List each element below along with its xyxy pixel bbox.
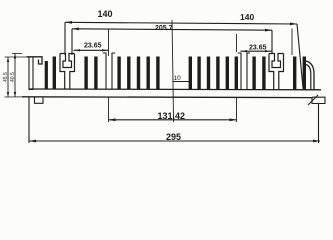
base plate	[22, 89, 321, 98]
dim 23.65 left line	[74, 30, 109, 57]
fin	[156, 57, 159, 90]
fin	[207, 57, 210, 90]
fin	[235, 57, 238, 90]
fork channel left	[103, 53, 115, 89]
svg-text:131.42: 131.42	[158, 111, 186, 121]
dim 131.42 line	[109, 118, 237, 121]
fin	[293, 57, 296, 90]
svg-text:205.7: 205.7	[155, 25, 173, 32]
fin	[262, 57, 265, 90]
T-slot channel right	[269, 54, 284, 90]
T-slot channel left	[60, 54, 75, 90]
fin	[94, 57, 97, 90]
dim 10 tick	[173, 81, 190, 83]
svg-text:295: 295	[166, 132, 181, 142]
svg-text:45.5: 45.5	[3, 72, 9, 82]
fork channel right	[238, 53, 250, 89]
fin	[252, 57, 255, 90]
dim 205.7 line	[72, 28, 292, 56]
fin	[84, 57, 87, 90]
left vertical dim lines	[5, 54, 30, 98]
extension line left 131.42	[108, 97, 110, 122]
extension line right 131.42	[236, 34, 238, 122]
fin	[45, 61, 48, 90]
fin	[53, 57, 56, 90]
svg-text:23.65: 23.65	[249, 45, 267, 52]
left top hook	[27, 57, 43, 64]
center line	[172, 20, 174, 122]
fin	[189, 57, 192, 90]
left base foot step	[35, 97, 44, 103]
right base end step	[308, 95, 325, 105]
dim 140 line top	[65, 21, 303, 88]
fin	[147, 57, 150, 90]
fin	[127, 57, 130, 90]
dim 295 line	[29, 97, 320, 143]
fin	[216, 57, 219, 90]
svg-text:140: 140	[98, 9, 113, 19]
fin	[226, 57, 229, 90]
svg-text:10: 10	[174, 75, 182, 82]
svg-text:23.65: 23.65	[84, 43, 102, 50]
svg-text:40.5: 40.5	[10, 72, 16, 82]
fin	[137, 57, 140, 90]
right end curl wall	[306, 61, 314, 90]
fin	[197, 57, 200, 90]
fin	[303, 57, 306, 90]
fin	[117, 57, 120, 90]
dim 23.65 right line	[241, 50, 272, 52]
svg-text:140: 140	[240, 12, 254, 22]
left end wall	[29, 57, 33, 90]
